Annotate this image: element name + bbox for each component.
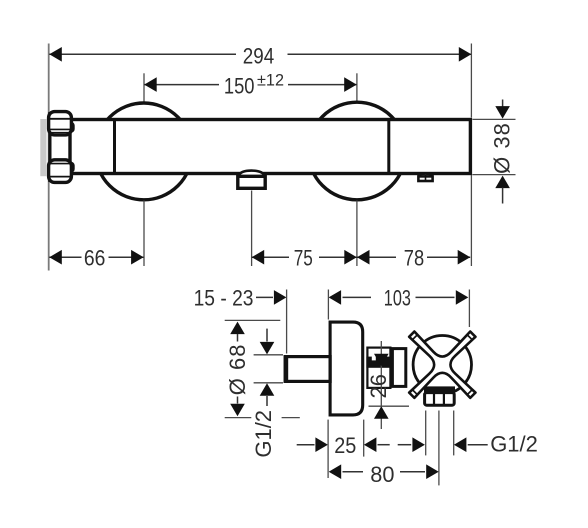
dimension 150 arrows <box>144 77 157 92</box>
dimension 80 arrows and line <box>329 464 342 479</box>
centerline below right circle <box>356 201 358 267</box>
diverter outlet under bar (center) arc <box>239 171 265 176</box>
dimension 25 leader left <box>297 444 315 446</box>
dimension 103 arrows and line <box>329 290 342 305</box>
dimension 26 line <box>380 341 382 429</box>
G1/2 left arrows <box>266 329 268 342</box>
dimension 25 arrow right <box>364 437 377 452</box>
dimension 294 arrows <box>49 47 62 62</box>
cross handle tip notches <box>412 335 472 395</box>
bar joint line left <box>113 120 116 174</box>
G1/2 right leader arrows <box>398 444 412 446</box>
union nut bottom body <box>49 160 72 183</box>
svg-text:Ø 38: Ø 38 <box>489 122 514 174</box>
cartridge black band <box>366 357 391 368</box>
cross handle <box>409 332 475 398</box>
dimension Ø68 bottom extension line <box>225 417 252 419</box>
dimension 150±12 line <box>144 84 357 86</box>
dimension 66 arrows <box>49 250 62 265</box>
mixer bar body <box>70 120 470 174</box>
svg-text:294: 294 <box>243 43 274 68</box>
dimension Ø68 arrows <box>230 322 245 335</box>
cartridge notch <box>372 355 376 360</box>
union nut top inner lines <box>50 118 70 120</box>
svg-text:±12: ±12 <box>257 71 284 90</box>
dimension 294 line <box>49 53 471 55</box>
dimension 15-23 arrow <box>274 290 287 305</box>
supply stub <box>285 357 330 382</box>
small outlet box <box>418 176 432 181</box>
escutcheon (side view) <box>330 322 363 415</box>
hose outlet rib dividers <box>433 393 435 406</box>
dimension 26 arrows <box>374 354 389 367</box>
stem block <box>392 349 405 387</box>
extension line below bar right end <box>470 175 472 266</box>
diverter outlet box <box>238 176 265 188</box>
svg-text:25: 25 <box>334 433 356 458</box>
dimension Ø68 top extension line <box>225 319 281 321</box>
handle hub circle <box>413 336 471 394</box>
small outlet divider <box>425 175 427 182</box>
union nut top: side bump <box>67 123 74 132</box>
dimension Ø38 arrows and shafts <box>502 100 504 108</box>
outlet extension lines downward <box>425 411 427 456</box>
centerline below left circle <box>143 201 145 267</box>
valve cartridge block <box>367 348 390 388</box>
dimension 66 line <box>49 256 143 258</box>
union nut bottom: side bump <box>67 163 74 172</box>
dimension 103 extension lines <box>327 290 329 320</box>
bar joint line right <box>387 120 390 174</box>
dimension Ø38 extension lines <box>472 118 515 120</box>
dimension 78 line <box>357 256 470 258</box>
supply stub thread end face <box>284 355 289 383</box>
extension line escutcheon right <box>363 420 365 457</box>
svg-text:66: 66 <box>84 246 106 271</box>
svg-text:G1/2: G1/2 <box>490 432 538 457</box>
wall shading strip <box>40 119 46 176</box>
dimension 15-23 extension line <box>286 290 288 354</box>
wall union vertical bar <box>48 112 51 182</box>
dimension 78 arrows <box>357 250 370 265</box>
svg-text:103: 103 <box>384 286 411 311</box>
dimension 75 arrows <box>252 250 265 265</box>
svg-text:80: 80 <box>370 462 394 487</box>
escutcheon circle right <box>308 102 406 200</box>
svg-text:78: 78 <box>404 246 424 271</box>
svg-text:150: 150 <box>224 74 255 99</box>
svg-text:26: 26 <box>366 374 391 398</box>
escutcheon circle left <box>95 103 192 200</box>
svg-text:75: 75 <box>294 246 313 271</box>
dimension 75 line <box>252 256 357 258</box>
extension line escutcheon left <box>327 420 329 478</box>
hose outlet black band <box>424 386 455 392</box>
outlet bottom extension line <box>369 405 410 407</box>
union nut bottom inner lines <box>50 163 71 165</box>
union nut top body <box>49 112 72 135</box>
svg-text:G1/2: G1/2 <box>251 410 276 458</box>
small outlet under bar (right) arc <box>418 174 433 175</box>
wall line <box>48 44 50 271</box>
hose outlet ribbed box <box>425 393 455 406</box>
centerline below diverter <box>251 191 253 267</box>
svg-text:Ø 68: Ø 68 <box>225 344 250 396</box>
G1/2 left: extension lines from supply stub <box>254 354 283 356</box>
dimension 15-23 leader line <box>256 296 273 298</box>
dimension 150 extension lines (circle centerlines above) <box>143 73 145 102</box>
svg-text:15 - 23: 15 - 23 <box>194 286 254 311</box>
dimension 294 right extension line <box>470 44 472 118</box>
